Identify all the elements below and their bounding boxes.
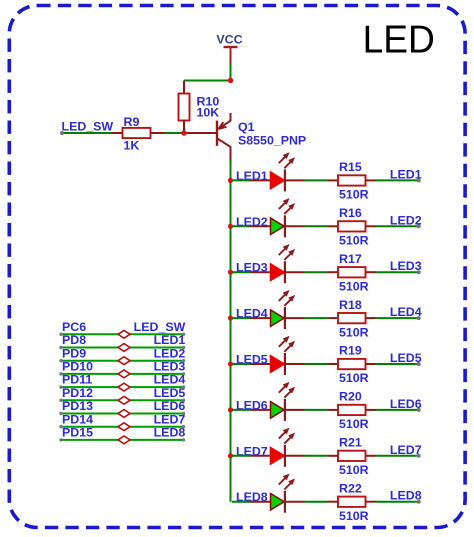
svg-text:R21: R21 <box>339 436 362 450</box>
svg-text:R19: R19 <box>339 344 362 358</box>
svg-text:LED4: LED4 <box>154 373 186 387</box>
svg-text:510R: 510R <box>339 234 369 248</box>
svg-text:LED2: LED2 <box>390 213 422 227</box>
svg-text:1K: 1K <box>124 139 140 153</box>
svg-text:LED6: LED6 <box>154 399 186 413</box>
svg-text:PD9: PD9 <box>62 346 86 360</box>
svg-text:510R: 510R <box>339 509 369 523</box>
svg-text:LED3: LED3 <box>154 360 186 374</box>
svg-text:510R: 510R <box>339 463 369 477</box>
svg-text:PD14: PD14 <box>62 412 93 426</box>
svg-text:LED_SW: LED_SW <box>62 120 114 134</box>
svg-text:R20: R20 <box>339 390 362 404</box>
svg-text:PD15: PD15 <box>62 426 93 440</box>
svg-text:R22: R22 <box>339 481 362 495</box>
svg-text:LED1: LED1 <box>390 167 422 181</box>
svg-text:PD8: PD8 <box>62 333 86 347</box>
svg-text:LED7: LED7 <box>390 443 422 457</box>
svg-text:PC6: PC6 <box>62 320 86 334</box>
svg-text:PD12: PD12 <box>62 386 93 400</box>
svg-text:LED: LED <box>363 19 435 62</box>
svg-text:510R: 510R <box>339 188 369 202</box>
svg-text:10K: 10K <box>197 106 220 120</box>
svg-text:R18: R18 <box>339 298 362 312</box>
svg-text:LED7: LED7 <box>154 412 186 426</box>
svg-text:LED5: LED5 <box>154 386 186 400</box>
svg-text:R16: R16 <box>339 206 362 220</box>
svg-text:PD13: PD13 <box>62 399 93 413</box>
svg-text:510R: 510R <box>339 371 369 385</box>
svg-text:R15: R15 <box>339 160 362 174</box>
svg-text:LED8: LED8 <box>390 489 422 503</box>
svg-text:LED8: LED8 <box>154 426 186 440</box>
svg-text:LED3: LED3 <box>390 259 422 273</box>
svg-text:510R: 510R <box>339 325 369 339</box>
svg-text:VCC: VCC <box>216 33 242 47</box>
svg-text:PD11: PD11 <box>62 373 92 387</box>
svg-text:R17: R17 <box>339 252 362 266</box>
svg-text:LED2: LED2 <box>154 346 186 360</box>
svg-text:Q1: Q1 <box>238 120 255 134</box>
svg-text:PD10: PD10 <box>62 360 93 374</box>
svg-text:LED5: LED5 <box>390 351 422 365</box>
svg-text:510R: 510R <box>339 279 369 293</box>
svg-text:R9: R9 <box>124 115 140 129</box>
svg-text:510R: 510R <box>339 417 369 431</box>
svg-text:S8550_PNP: S8550_PNP <box>238 133 306 147</box>
svg-text:LED4: LED4 <box>390 305 422 319</box>
svg-text:LED6: LED6 <box>390 397 422 411</box>
svg-text:LED1: LED1 <box>154 333 186 347</box>
svg-text:LED_SW: LED_SW <box>134 320 186 334</box>
